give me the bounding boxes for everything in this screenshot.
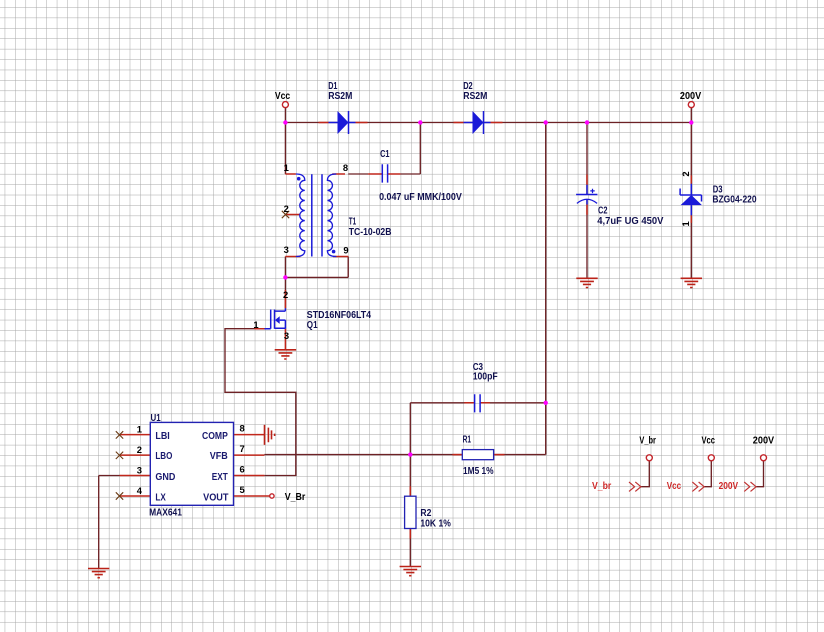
- svg-text:4: 4: [137, 485, 143, 496]
- svg-text:0.047 uF MMK/100V: 0.047 uF MMK/100V: [379, 192, 462, 203]
- svg-text:1: 1: [680, 221, 691, 226]
- svg-text:200V: 200V: [719, 481, 739, 492]
- svg-text:LX: LX: [155, 493, 166, 504]
- svg-text:COMP: COMP: [202, 431, 228, 442]
- svg-text:1: 1: [137, 424, 142, 435]
- svg-text:V_br: V_br: [639, 435, 656, 446]
- svg-text:R2: R2: [420, 508, 431, 519]
- svg-text:Q1: Q1: [307, 320, 318, 331]
- svg-text:RS2M: RS2M: [328, 91, 352, 102]
- svg-text:Vcc: Vcc: [667, 481, 682, 492]
- svg-text:VOUT: VOUT: [203, 493, 228, 504]
- svg-text:1: 1: [253, 319, 258, 330]
- svg-text:VFB: VFB: [210, 451, 228, 462]
- svg-text:C1: C1: [380, 149, 390, 160]
- svg-text:EXT: EXT: [212, 472, 228, 483]
- svg-text:Vcc: Vcc: [702, 435, 716, 446]
- svg-text:2: 2: [680, 171, 691, 176]
- svg-text:8: 8: [343, 162, 348, 173]
- svg-text:R1: R1: [463, 435, 472, 446]
- svg-text:100pF: 100pF: [473, 372, 498, 383]
- svg-text:BZG04-220: BZG04-220: [712, 195, 756, 206]
- svg-text:MAX641: MAX641: [149, 508, 182, 519]
- svg-text:C2: C2: [598, 205, 608, 216]
- svg-text:5: 5: [240, 484, 245, 495]
- svg-text:10K 1%: 10K 1%: [420, 519, 451, 530]
- svg-text:1M5 1%: 1M5 1%: [463, 466, 494, 477]
- svg-text:TC-10-02B: TC-10-02B: [349, 227, 392, 238]
- svg-text:3: 3: [137, 465, 142, 476]
- svg-text:GND: GND: [155, 472, 175, 483]
- svg-text:V_br: V_br: [592, 481, 611, 492]
- svg-text:6: 6: [240, 463, 245, 474]
- svg-text:2: 2: [137, 444, 142, 455]
- svg-text:7: 7: [240, 443, 245, 454]
- svg-text:3: 3: [284, 330, 289, 341]
- svg-text:4,7uF UG 450V: 4,7uF UG 450V: [597, 216, 664, 227]
- svg-text:LBO: LBO: [155, 451, 172, 462]
- svg-text:RS2M: RS2M: [463, 91, 487, 102]
- svg-text:Vcc: Vcc: [275, 91, 291, 102]
- svg-text:200V: 200V: [753, 435, 775, 446]
- svg-text:9: 9: [343, 244, 348, 255]
- svg-text:2: 2: [284, 203, 289, 214]
- svg-text:2: 2: [283, 289, 288, 300]
- svg-text:U1: U1: [151, 413, 162, 424]
- svg-text:8: 8: [240, 422, 245, 433]
- svg-text:V_Br: V_Br: [285, 492, 306, 503]
- svg-text:1: 1: [284, 162, 289, 173]
- svg-text:3: 3: [284, 244, 289, 255]
- svg-text:LBI: LBI: [155, 431, 170, 442]
- svg-text:200V: 200V: [680, 91, 702, 102]
- svg-text:T1: T1: [349, 216, 357, 227]
